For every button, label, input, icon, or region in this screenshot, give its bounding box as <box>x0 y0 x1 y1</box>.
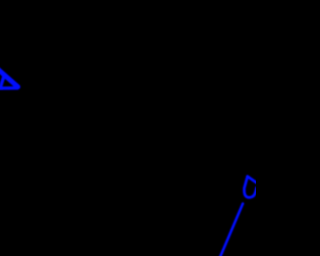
wire W1 (diagonal wire, bottom right, clipped at bottom edge) <box>218 204 243 256</box>
wire diagonal segment of triangle <box>0 68 18 87</box>
node A triangle flag symbol (clipped at left edge) <box>0 68 18 89</box>
label U (rotated designator glyph, clipped at right edge) <box>244 176 257 197</box>
wire bottom segment of triangle <box>0 86 18 90</box>
label U top serif stroke <box>248 176 257 183</box>
wire steep connector segment of triangle <box>0 74 4 87</box>
label U bowl stroke <box>244 176 256 197</box>
